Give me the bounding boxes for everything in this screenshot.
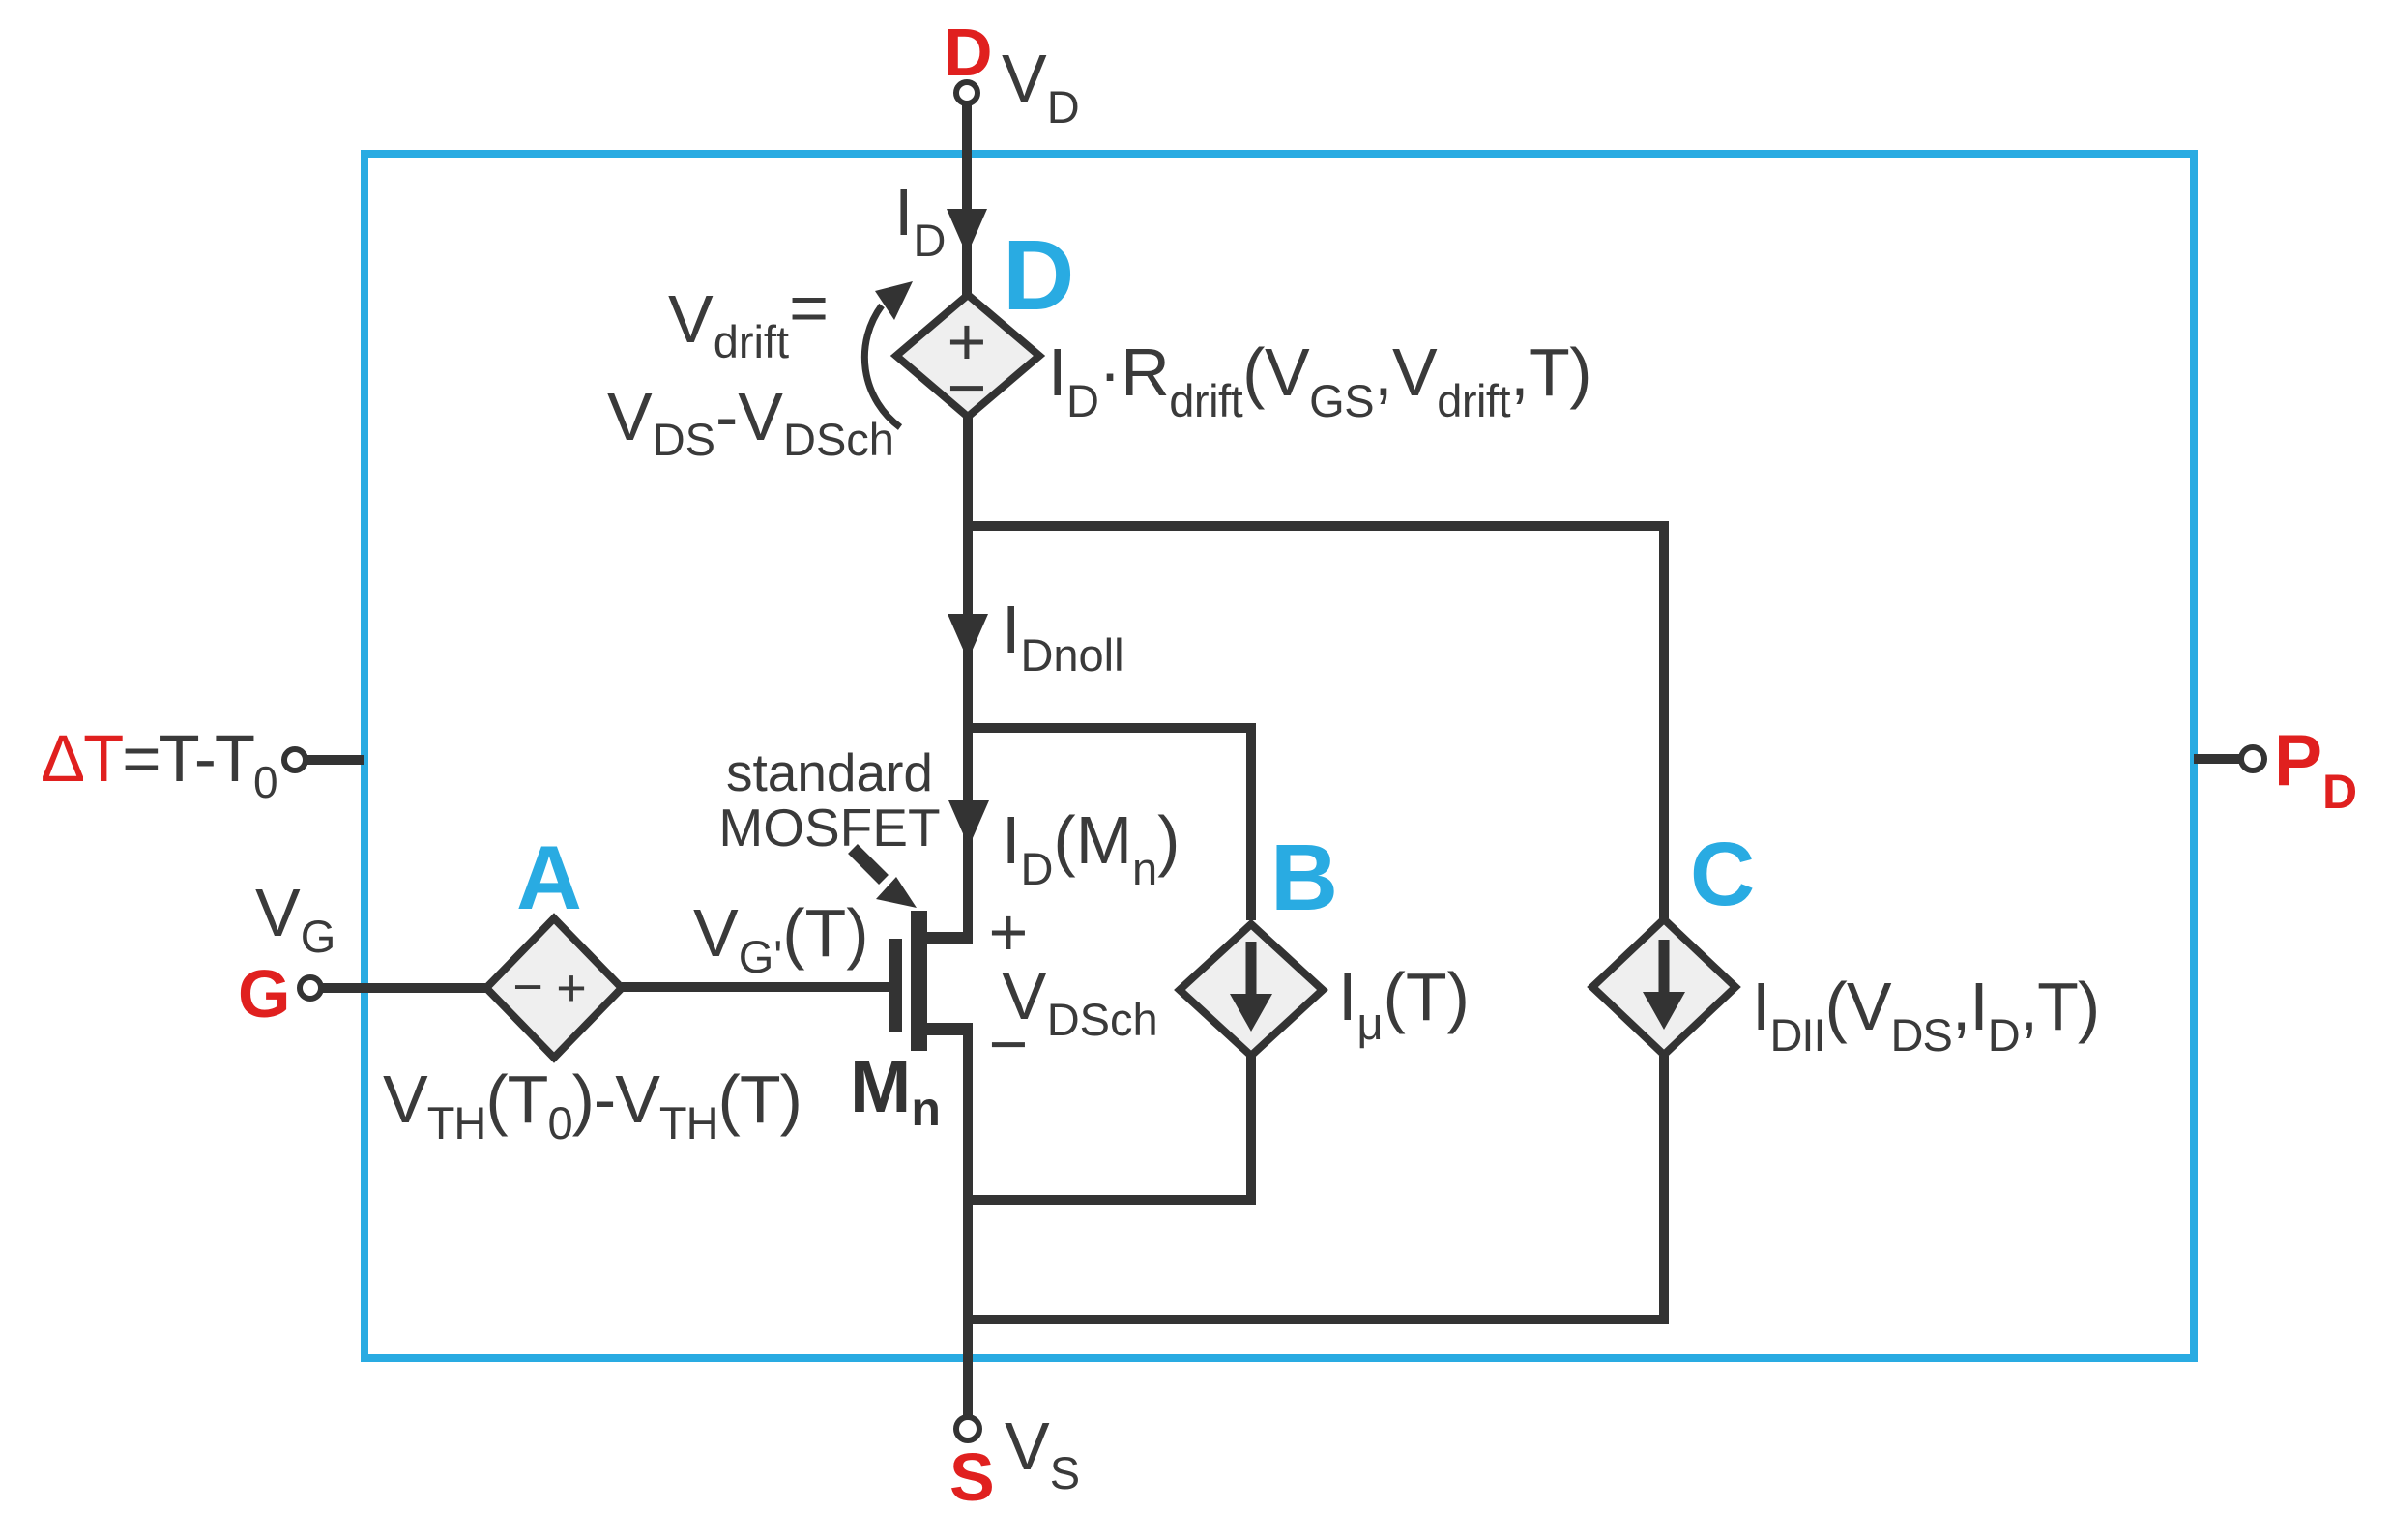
dependent voltage source D (diamond) [896, 295, 1039, 417]
svg-text:MOSFET: MOSFET [718, 798, 940, 857]
terminal D (circle) [956, 82, 977, 103]
svg-text:D: D [1003, 219, 1074, 331]
transistor Mn: drain stub [925, 932, 973, 944]
terminal PD wire [2194, 754, 2241, 764]
svg-text:D: D [944, 15, 993, 90]
svg-text:B: B [1270, 825, 1338, 930]
svg-text:−: − [989, 1006, 1029, 1082]
curved arrow (Vdrift reference) [864, 305, 900, 427]
svg-text:standard: standard [726, 742, 933, 802]
arrow in source C [1659, 940, 1670, 994]
wire: main vertical from MOSFET source to terminal S [963, 1027, 973, 1418]
dependent current source C (diamond) [1592, 919, 1735, 1055]
svg-text:S: S [949, 1439, 995, 1515]
svg-text:C: C [1690, 824, 1755, 924]
svg-text:+: + [556, 959, 587, 1017]
wire: C branch top rail [968, 526, 1664, 918]
wire: top drain lead from terminal D down to source D [962, 103, 972, 297]
current arrow IDnoll [948, 614, 988, 660]
dependent current source B (diamond) [1180, 924, 1323, 1056]
terminal dT (circle) [284, 749, 306, 770]
terminal PD (circle) [2241, 747, 2264, 770]
svg-text:G: G [238, 956, 290, 1032]
wire: B branch bottom rail [968, 1056, 1251, 1200]
transistor Mn: gate wire [622, 982, 889, 992]
current arrow ID on drain wire [947, 209, 987, 255]
blue model boundary box [364, 154, 2194, 1358]
transistor Mn: channel bar [911, 911, 927, 1051]
wire: C branch bottom rail [968, 1056, 1664, 1320]
svg-text:−: − [948, 350, 987, 425]
wire: main vertical between source D and MOSFET drain [963, 416, 973, 940]
annotation arrow to MOSFET [853, 849, 884, 880]
terminal G (circle) [300, 977, 321, 999]
svg-text:ΔT=T-T0: ΔT=T-T0 [41, 721, 277, 807]
svg-text:A: A [516, 827, 582, 928]
wire: B branch top rail [968, 728, 1251, 920]
current arrow ID(Mn) [948, 800, 989, 847]
terminal G wire [321, 983, 486, 993]
terminal S (circle) [956, 1417, 979, 1440]
dependent voltage source A (diamond) [486, 918, 622, 1058]
terminal dT wire [306, 755, 364, 765]
transistor Mn: gate bar [889, 939, 902, 1032]
arrow in source B [1246, 942, 1257, 996]
svg-text:−: − [512, 958, 543, 1016]
transistor Mn: source stub [925, 1023, 973, 1035]
